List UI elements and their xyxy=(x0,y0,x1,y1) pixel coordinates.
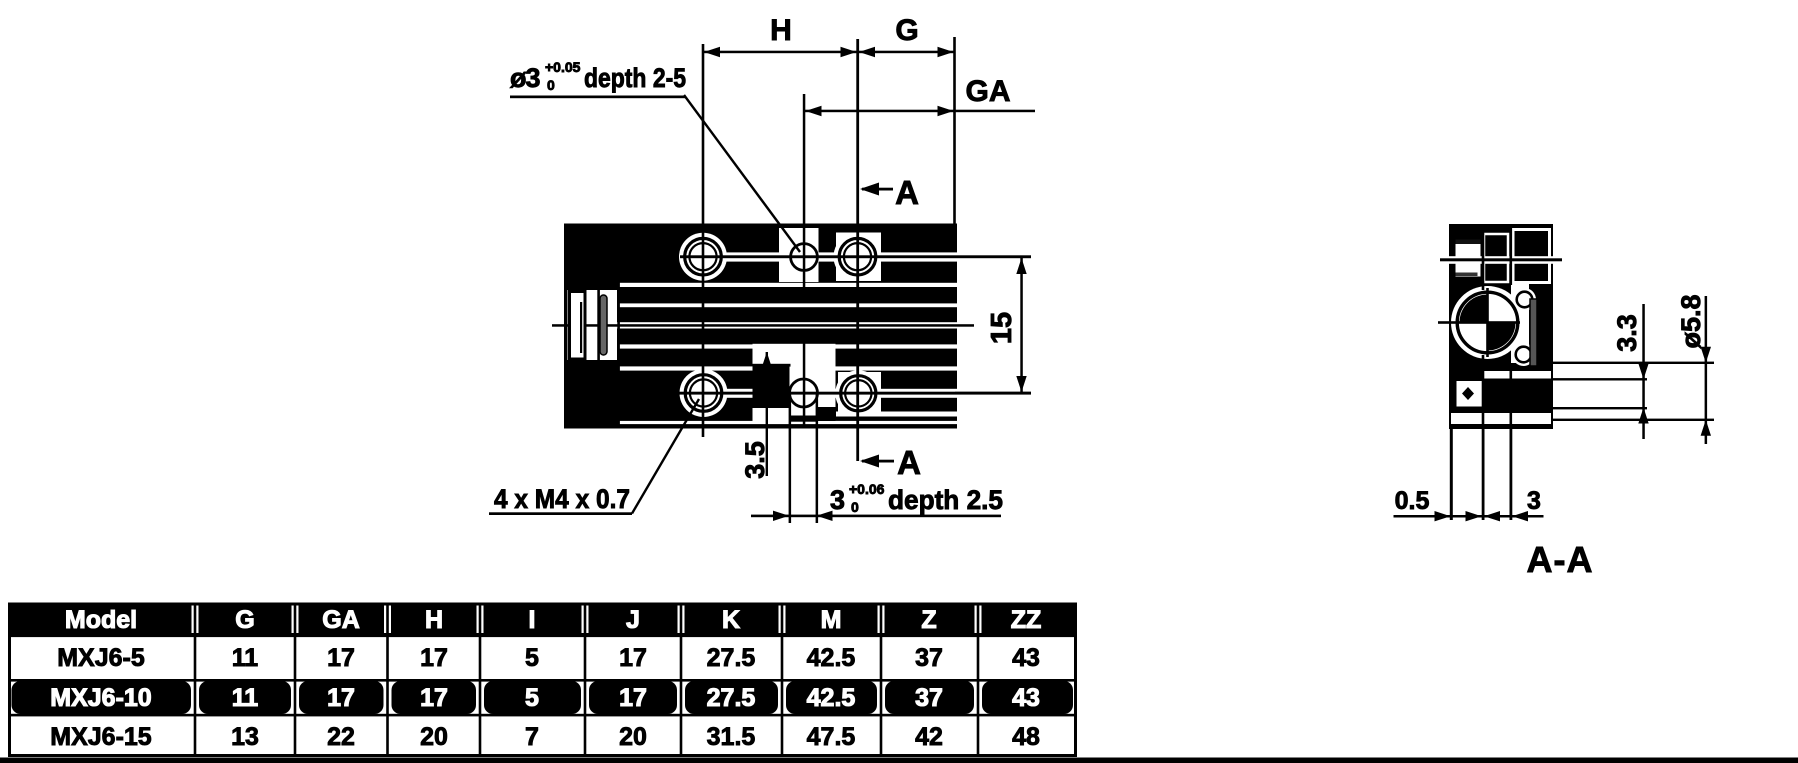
row MXJ6-15 xyxy=(50,723,1040,751)
extension line y408 xyxy=(1553,407,1647,409)
counterbore hole top-left xyxy=(685,238,722,275)
svg-text:22: 22 xyxy=(327,723,355,751)
svg-text:27.5: 27.5 xyxy=(707,684,756,712)
svg-text:37: 37 xyxy=(915,684,943,712)
left column top bar xyxy=(1456,240,1481,245)
counterbore hole top-right xyxy=(839,238,876,275)
small circle lower xyxy=(1516,347,1532,363)
hole halo bottom-right xyxy=(835,370,881,416)
top holes horizontal centerline xyxy=(680,255,1031,258)
dimension 3.5 extension line xyxy=(740,352,772,479)
white band centerline xyxy=(568,322,958,328)
svg-text:7: 7 xyxy=(525,723,539,751)
slot bottom xyxy=(791,416,818,422)
left end pocket xyxy=(568,290,618,360)
table outline xyxy=(10,604,1076,756)
section inner vertical 1 xyxy=(1482,224,1485,290)
svg-text:Model: Model xyxy=(65,606,137,634)
svg-text:3.3: 3.3 xyxy=(1612,314,1642,352)
white band row 2 xyxy=(618,303,957,307)
svg-text:4 x M4 x 0.7: 4 x M4 x 0.7 xyxy=(494,484,630,514)
svg-text:48: 48 xyxy=(1012,723,1040,751)
header row background xyxy=(11,604,1074,635)
leader line hole dia label xyxy=(684,95,800,252)
section centerline xyxy=(1440,258,1562,261)
svg-text:42.5: 42.5 xyxy=(807,684,856,712)
white band above bottom edge xyxy=(618,421,957,424)
svg-text:3.5: 3.5 xyxy=(740,441,770,479)
svg-text:43: 43 xyxy=(1012,644,1040,672)
header cell gaps xyxy=(192,606,982,634)
extension line y420 xyxy=(1553,419,1714,421)
section line A-A vertical xyxy=(856,39,859,461)
vertical centerline mid holes upper xyxy=(803,94,806,300)
dimension 3 slot xyxy=(751,481,1003,521)
svg-text:5: 5 xyxy=(525,684,539,712)
dimension GA xyxy=(804,75,1035,116)
leg line right xyxy=(1510,429,1513,520)
svg-text:3: 3 xyxy=(1527,487,1541,515)
black diamond in lower-left square xyxy=(1462,387,1474,400)
dimension 15 right side xyxy=(955,256,1031,395)
small circle upper xyxy=(1517,292,1533,308)
white band top hole centerline xyxy=(684,252,957,261)
small circle halo lower xyxy=(1512,343,1535,366)
end lock bracket xyxy=(570,292,586,360)
leader line M4 label xyxy=(632,399,699,514)
dimension H xyxy=(703,14,858,57)
svg-text:11: 11 xyxy=(232,644,259,672)
section centerline white band xyxy=(1449,256,1553,264)
svg-text:0.5: 0.5 xyxy=(1395,487,1430,515)
lock rod xyxy=(600,295,607,355)
svg-text:43: 43 xyxy=(1012,684,1040,712)
svg-text:27.5: 27.5 xyxy=(707,644,756,672)
slide table body (top view) xyxy=(564,224,957,429)
pocket ledge line xyxy=(753,364,791,367)
pocket lower-left black fill xyxy=(753,367,790,409)
label hole dia depth xyxy=(510,59,686,98)
hole halo top-mid xyxy=(779,228,819,282)
dimension dia 5.8 xyxy=(1676,294,1711,444)
svg-text:42.5: 42.5 xyxy=(807,644,856,672)
label 4 x M4 x 0.7 xyxy=(489,484,632,515)
bore crosshair vertical xyxy=(1486,288,1489,357)
svg-text:J: J xyxy=(626,606,640,634)
small circle halo upper xyxy=(1513,288,1536,311)
bore wedge lower-right xyxy=(1488,323,1516,351)
right cell white border xyxy=(1513,230,1550,283)
svg-text:17: 17 xyxy=(619,644,647,672)
slot left edge / extension line xyxy=(789,393,792,523)
table grid verticals xyxy=(194,604,980,756)
leg line mid xyxy=(1482,429,1485,520)
left column white square xyxy=(1456,240,1481,277)
white band row 4 xyxy=(618,344,957,348)
svg-text:depth 2.5: depth 2.5 xyxy=(888,485,1003,515)
bottom dimension line xyxy=(1394,487,1544,521)
svg-text:M: M xyxy=(821,606,842,634)
bottom middle pocket xyxy=(753,344,836,421)
bore crosshair horizontal xyxy=(1438,321,1520,324)
counterbore hole bottom-left xyxy=(685,375,722,412)
svg-text:47.5: 47.5 xyxy=(807,723,856,751)
svg-text:MXJ6-15: MXJ6-15 xyxy=(50,723,152,751)
hole top-mid xyxy=(791,244,818,271)
hole bottom-mid xyxy=(790,379,818,407)
body right edge extension xyxy=(953,37,956,224)
table grid horizontals xyxy=(10,635,1076,717)
svg-text:17: 17 xyxy=(327,684,355,712)
svg-text:MXJ6-10: MXJ6-10 xyxy=(50,684,151,712)
lower-left white square xyxy=(1457,381,1483,407)
svg-text:3: 3 xyxy=(830,485,845,515)
left cap divider line 1 xyxy=(597,224,600,428)
rod bar xyxy=(1530,299,1537,366)
svg-text:0: 0 xyxy=(547,77,555,93)
hole halo bottom-left xyxy=(680,369,728,417)
svg-text:MXJ6-5: MXJ6-5 xyxy=(57,644,145,672)
svg-text:GA: GA xyxy=(322,606,360,634)
hole halo top-right xyxy=(834,233,882,281)
highlighted row background xyxy=(12,681,1074,714)
svg-text:5: 5 xyxy=(525,644,539,672)
bottom white band xyxy=(1451,413,1551,424)
bottom rule xyxy=(0,758,1798,763)
row MXJ6-10 highlighted xyxy=(50,684,1040,712)
white band bottom hole centerline xyxy=(684,389,957,398)
white right of bore xyxy=(1511,283,1529,363)
svg-text:37: 37 xyxy=(915,644,943,672)
svg-text:17: 17 xyxy=(420,684,448,712)
svg-text:0: 0 xyxy=(851,499,859,515)
part horizontal centerline xyxy=(552,324,974,327)
left cap divider line 2 xyxy=(617,224,620,428)
left column bottom bar xyxy=(1456,273,1478,277)
svg-text:G: G xyxy=(235,606,254,634)
white band row 1 xyxy=(618,283,957,287)
svg-text:17: 17 xyxy=(420,644,448,672)
header labels xyxy=(65,606,1041,634)
section inner vertical 2 xyxy=(1510,224,1513,285)
svg-text:K: K xyxy=(722,606,740,634)
svg-text:I: I xyxy=(529,606,536,634)
white band lower right xyxy=(836,412,957,417)
svg-text:ZZ: ZZ xyxy=(1011,606,1042,634)
vertical centerline left holes xyxy=(702,44,705,437)
svg-text:20: 20 xyxy=(619,723,647,751)
svg-text:ø3: ø3 xyxy=(510,63,540,93)
lever line xyxy=(580,302,582,353)
svg-text:42: 42 xyxy=(915,723,943,751)
svg-text:17: 17 xyxy=(619,684,647,712)
bore wedge upper-left xyxy=(1460,295,1488,323)
middle cell white border xyxy=(1484,234,1508,282)
white band row 5 xyxy=(618,366,957,370)
svg-text:15: 15 xyxy=(986,312,1018,344)
svg-text:20: 20 xyxy=(420,723,448,751)
svg-text:A-A: A-A xyxy=(1527,539,1594,580)
section arrow A top xyxy=(860,174,919,211)
svg-text:+0.05: +0.05 xyxy=(545,59,581,75)
svg-text:A: A xyxy=(897,444,921,481)
svg-text:ø5.8: ø5.8 xyxy=(1676,294,1706,348)
counterbore hole bottom-right xyxy=(841,376,876,411)
leg line left xyxy=(1450,429,1453,520)
svg-text:Z: Z xyxy=(921,606,936,634)
mid white gap xyxy=(1484,371,1551,379)
row MXJ6-5 xyxy=(57,644,1040,672)
slot right edge / extension line xyxy=(816,393,819,523)
svg-text:GA: GA xyxy=(966,75,1011,108)
vertical centerline mid holes lower xyxy=(803,341,806,428)
section body xyxy=(1449,224,1553,429)
svg-text:+0.06: +0.06 xyxy=(849,481,885,497)
pocket lower-right black fill xyxy=(818,407,836,421)
svg-text:G: G xyxy=(895,14,918,47)
svg-text:13: 13 xyxy=(231,723,259,751)
dimension G xyxy=(858,14,955,57)
svg-text:A: A xyxy=(895,174,919,211)
bore xyxy=(1457,292,1518,353)
svg-text:depth 2-5: depth 2-5 xyxy=(584,63,686,93)
extension line y379 xyxy=(1553,378,1647,380)
svg-text:H: H xyxy=(425,606,443,634)
bottom holes horizontal centerline xyxy=(660,392,1031,395)
dimension 3.3 xyxy=(1612,304,1649,439)
svg-text:11: 11 xyxy=(232,684,259,712)
section arrow A bottom xyxy=(860,444,921,481)
extension line y363 xyxy=(1553,362,1714,364)
bore halo xyxy=(1451,286,1524,359)
svg-text:31.5: 31.5 xyxy=(707,723,756,751)
svg-text:H: H xyxy=(770,14,792,47)
svg-text:17: 17 xyxy=(327,644,355,672)
hole halo top-left xyxy=(679,233,727,281)
